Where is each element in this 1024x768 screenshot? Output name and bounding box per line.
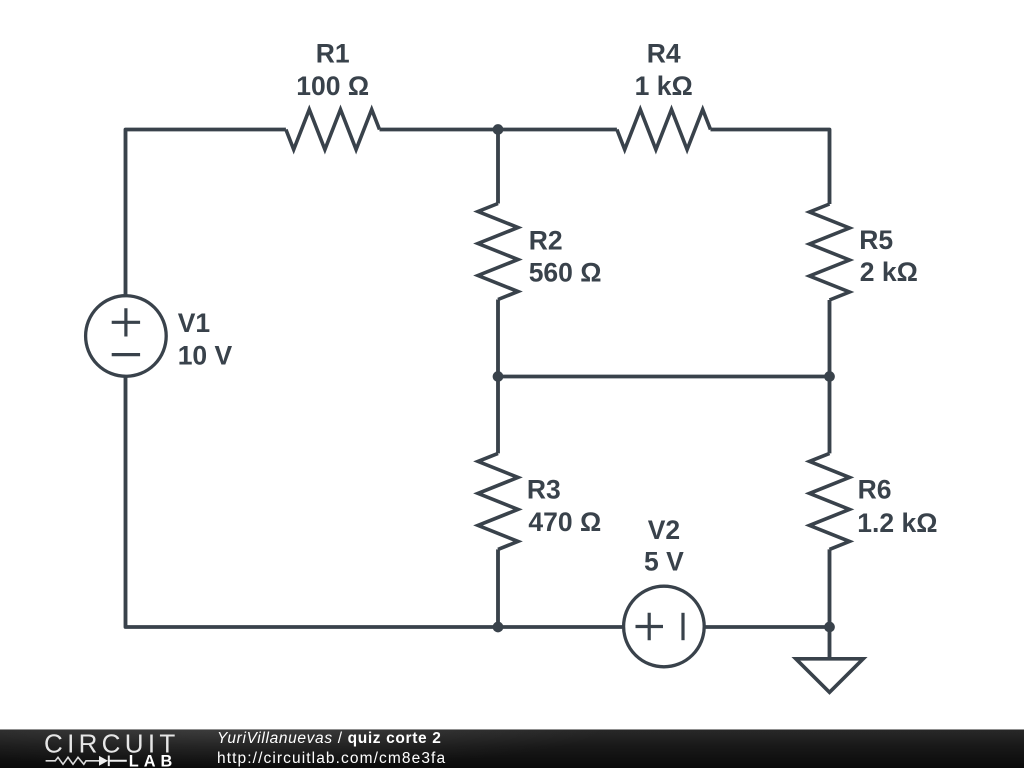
wire R5 bottom to node C — [828, 300, 832, 377]
resistor R1 — [286, 110, 380, 150]
resistor R3 — [478, 453, 518, 549]
node E junction dot (R3 bottom rail) — [493, 622, 504, 633]
V1 plus sign — [112, 308, 140, 336]
svg-text:V2: V2 — [648, 515, 680, 545]
node B junction dot — [493, 371, 504, 382]
wire R4 right + top-right corner down to R5 — [711, 130, 830, 205]
svg-text:R5: R5 — [859, 225, 893, 255]
wire V1 bottom + bottom-left corner to V2 left — [126, 378, 623, 628]
voltage source V2 circle — [624, 586, 705, 667]
voltage source V1 circle — [86, 296, 167, 377]
svg-text:V1: V1 — [178, 308, 210, 338]
svg-text:5 V: 5 V — [644, 547, 684, 577]
svg-text:R3: R3 — [527, 475, 561, 505]
svg-text:1.2 kΩ: 1.2 kΩ — [857, 508, 937, 538]
footer bar — [0, 729, 1024, 768]
wire node C down to R6 top — [828, 377, 832, 454]
wire V2 right to ground node D — [705, 625, 829, 629]
resistor R6 — [810, 453, 850, 549]
svg-text:10 V: 10 V — [178, 341, 233, 371]
wire R6 bottom to ground node D — [828, 549, 832, 627]
wire R3 bottom to bottom rail — [496, 549, 500, 627]
wire node B down to R3 top — [496, 377, 500, 454]
svg-text:100 Ω: 100 Ω — [296, 71, 369, 101]
V2 plus sign — [636, 613, 664, 640]
svg-text:2 kΩ: 2 kΩ — [860, 257, 918, 287]
wire node A down to R2 top — [496, 130, 500, 204]
logo resistor+diode glyph — [46, 757, 99, 764]
svg-text:560 Ω: 560 Ω — [529, 258, 602, 288]
wire node A to R4 left — [498, 128, 617, 132]
svg-text:R6: R6 — [858, 475, 892, 505]
wire middle horizontal node B to node C — [498, 375, 830, 379]
wire R1 right to node A — [380, 128, 499, 132]
resistor R5 — [810, 204, 850, 300]
resistor R2 — [478, 204, 518, 300]
wire R2 bottom to node B — [496, 300, 500, 377]
svg-text:470 Ω: 470 Ω — [528, 507, 601, 537]
node C junction dot — [824, 371, 835, 382]
ground symbol — [796, 627, 863, 692]
svg-text:R2: R2 — [529, 225, 563, 255]
svg-text:LAB: LAB — [129, 753, 177, 768]
V1 minus sign — [112, 353, 140, 356]
resistor R4 — [617, 110, 711, 150]
node D junction dot — [824, 622, 835, 633]
node A junction dot — [493, 124, 504, 135]
V2 minus plate bar — [681, 613, 684, 640]
wire top-left horizontal (V1 top to R1 left) — [126, 130, 286, 295]
CircuitLab logo wordmark — [40, 730, 180, 768]
svg-text:R4: R4 — [647, 38, 681, 68]
footer title and url — [217, 729, 446, 768]
svg-text:1 kΩ: 1 kΩ — [635, 71, 693, 101]
svg-text:R1: R1 — [316, 38, 350, 68]
